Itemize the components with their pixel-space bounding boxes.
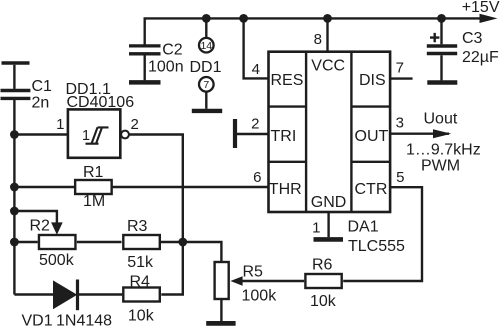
node junction on rail at DD1 pin14	[202, 14, 211, 23]
svg-text:7: 7	[203, 79, 209, 91]
capacitor C1 plates	[1, 91, 31, 99]
R5 wiper arrow	[230, 276, 242, 286]
wire R5 bottom lead	[220, 299, 222, 321]
ground bar under DA1 pin1	[314, 237, 344, 242]
svg-text:1N4148: 1N4148	[56, 313, 112, 326]
svg-text:4: 4	[252, 61, 260, 78]
node junction on rail at pin4 drop	[239, 14, 248, 23]
wire left bus	[13, 100, 15, 295]
polarity plus sign of C3	[430, 33, 439, 42]
wire DD1 pin7 to ground	[205, 92, 207, 109]
wire RES pin4 from rail	[244, 18, 269, 78]
node junction bus to gate input	[10, 130, 19, 139]
wire +15V top rail with drop to C2	[145, 18, 481, 44]
svg-text:6: 6	[253, 169, 261, 186]
ground bar under DD1 pin7	[192, 109, 222, 113]
svg-text:10k: 10k	[128, 308, 155, 325]
terminal bar at TRI input	[233, 119, 237, 148]
wire R2 wiper	[14, 211, 57, 223]
resistor R6	[305, 274, 341, 288]
wire TRI pin2 stub	[237, 133, 269, 135]
ground bar under C2	[129, 80, 161, 85]
diode VD1	[53, 280, 77, 309]
svg-text:51k: 51k	[127, 254, 154, 271]
capacitor C3 top lead	[440, 18, 442, 44]
potentiometer R5	[215, 262, 229, 299]
wire R4 to node	[161, 242, 183, 295]
wire DD1 pin14 drop	[205, 18, 207, 38]
svg-text:22µF: 22µF	[462, 49, 499, 66]
svg-text:1: 1	[82, 128, 90, 144]
node junction bus at R2 left	[10, 238, 19, 247]
wire R5 wiper to R6	[242, 280, 305, 282]
ground bar under C3	[427, 80, 457, 85]
R2 wiper arrow	[51, 222, 63, 234]
svg-text:1M: 1M	[83, 193, 105, 210]
svg-text:Uout: Uout	[424, 111, 458, 128]
capacitor C2 plates	[129, 46, 161, 54]
svg-text:DD1: DD1	[190, 59, 222, 76]
wire CTR pin5 to R6	[343, 187, 422, 281]
wire bus corner to diode VD1	[14, 293, 53, 295]
svg-text:R6: R6	[312, 257, 333, 274]
svg-text:2n: 2n	[32, 94, 50, 111]
node junction bus at R1	[10, 183, 19, 192]
svg-text:DIS: DIS	[359, 72, 386, 89]
potentiometer R2	[39, 235, 75, 249]
svg-text:2: 2	[131, 116, 139, 133]
svg-text:C2: C2	[162, 42, 183, 59]
svg-text:R5: R5	[243, 263, 264, 280]
svg-text:2: 2	[251, 115, 259, 132]
wire GND pin1	[327, 212, 329, 237]
svg-text:CTR: CTR	[355, 181, 388, 198]
diode VD1 cathode bar	[76, 280, 79, 311]
wire bus to R2	[14, 241, 37, 243]
ground bar under R5	[206, 321, 235, 326]
svg-text:OUT: OUT	[355, 128, 389, 145]
logic gate DD1.1 body	[68, 109, 120, 157]
svg-text:VD1: VD1	[22, 313, 53, 326]
resistor R4	[123, 288, 160, 302]
DA1 cell line TRI/THR	[269, 161, 307, 163]
wire OUT pin3	[390, 132, 449, 134]
wire VCC pin8 from rail	[326, 18, 328, 51]
svg-text:THR: THR	[269, 181, 302, 198]
svg-text:1…9.7kHz: 1…9.7kHz	[406, 142, 481, 159]
resistor R3	[123, 235, 160, 249]
node junction on rail at VCC pin8 drop	[323, 14, 332, 23]
svg-text:14: 14	[200, 40, 212, 52]
wire R3 to node	[161, 241, 183, 243]
svg-text:500k: 500k	[39, 252, 75, 269]
svg-text:VCC: VCC	[311, 58, 345, 75]
svg-text:R1: R1	[83, 164, 104, 181]
svg-text:1: 1	[312, 219, 320, 236]
wire C2 bottom lead	[143, 55, 145, 80]
DA1 internal divider left	[305, 52, 307, 212]
svg-text:RES: RES	[271, 72, 304, 89]
svg-text:+15V: +15V	[462, 0, 500, 16]
DA1 cell line RES/TRI	[269, 105, 307, 107]
svg-text:100k: 100k	[242, 288, 278, 305]
wire R1/THR row	[14, 186, 268, 188]
svg-text:100n: 100n	[148, 59, 184, 76]
svg-text:TLC555: TLC555	[348, 238, 405, 255]
inversion bubble pin2	[121, 131, 129, 139]
node junction R3/R4/R5/gate	[178, 238, 187, 247]
wire C3 bottom lead	[440, 55, 442, 80]
terminal bar above C1	[2, 61, 30, 65]
svg-text:7: 7	[396, 60, 404, 77]
svg-text:C1: C1	[32, 78, 53, 95]
svg-text:TRI: TRI	[271, 128, 297, 145]
resistor R1	[75, 180, 112, 194]
node junction bus at R2 wiper	[10, 207, 19, 216]
svg-text:R4: R4	[130, 274, 151, 291]
svg-text:5: 5	[396, 169, 404, 186]
capacitor C3 plates	[427, 46, 457, 54]
wire C1 top lead	[13, 65, 15, 89]
pin circle 7 of DD1	[199, 77, 214, 92]
svg-text:PWM: PWM	[421, 158, 460, 175]
svg-text:1: 1	[56, 116, 64, 133]
wire diode to R4	[78, 293, 123, 295]
svg-text:GND: GND	[311, 194, 347, 211]
svg-text:R3: R3	[127, 218, 148, 235]
wire gate output down to R3 node	[129, 135, 183, 243]
wire R2 to R3	[77, 241, 122, 243]
wire gate input	[14, 133, 68, 135]
DA1 internal divider right	[350, 52, 352, 212]
hysteresis symbol	[86, 127, 109, 143]
svg-text:DA1: DA1	[348, 219, 379, 236]
+15V supply arrow	[480, 14, 498, 23]
wire node to R5 top	[183, 242, 222, 262]
svg-text:10k: 10k	[310, 293, 337, 310]
pin circle 14 of DD1	[199, 38, 214, 53]
svg-text:3: 3	[396, 115, 404, 132]
op-amp timer DA1 TLC555 body	[269, 52, 391, 212]
node junction on rail at C3	[437, 14, 446, 23]
svg-text:R2: R2	[30, 218, 51, 235]
wire DIS pin7 stub	[390, 77, 413, 79]
DA1 cell line DIS/OUT	[351, 105, 390, 107]
svg-text:C3: C3	[462, 30, 483, 47]
svg-text:8: 8	[314, 31, 322, 48]
DA1 cell line OUT/CTR	[351, 161, 390, 163]
output arrow	[433, 129, 451, 138]
